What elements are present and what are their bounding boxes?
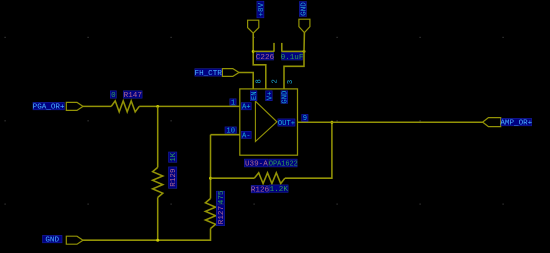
svg-text:1: 1: [231, 99, 235, 107]
svg-text:V+: V+: [266, 91, 274, 100]
svg-text:0.1uF: 0.1uF: [281, 54, 304, 62]
resistor R129 value 1K: [153, 152, 178, 198]
junction GND rail / R129: [156, 239, 159, 242]
junction output node: [330, 121, 333, 124]
svg-text:0: 0: [111, 92, 116, 100]
svg-text:10: 10: [226, 128, 235, 136]
pin 10 A-: [241, 131, 251, 138]
pin 8 EN: [250, 91, 257, 101]
svg-text:GND: GND: [45, 237, 59, 245]
svg-text:OUT+: OUT+: [278, 120, 295, 128]
svg-text:R127: R127: [218, 206, 226, 224]
wire PGA_OR+ to R147: [83, 105, 111, 107]
wire node A down to R129: [157, 106, 159, 167]
svg-text:R129: R129: [170, 168, 178, 187]
svg-text:GND: GND: [300, 2, 308, 16]
junction node A: [156, 105, 159, 108]
designator U39-A: [244, 159, 268, 167]
port PGA_OR+: [33, 102, 83, 111]
svg-text:C226: C226: [256, 54, 275, 62]
svg-text:1.2K: 1.2K: [270, 186, 289, 194]
wire R126 to output node: [285, 122, 332, 178]
junction GND / C226: [303, 50, 306, 53]
svg-text:9: 9: [303, 115, 307, 123]
svg-text:GND: GND: [282, 91, 290, 104]
port GND bottom-left: [43, 235, 84, 244]
svg-text:EN: EN: [251, 91, 259, 100]
wire +8V down to junction and V+ pin 2: [253, 33, 266, 89]
wire C226 right plate to GND junction: [282, 50, 304, 52]
wire junction to C226 left plate: [253, 50, 274, 52]
pin 1 A+: [241, 103, 251, 110]
wire op-amp pin 9 output to AMP_OR+: [298, 121, 483, 123]
port +8V: [248, 1, 266, 33]
port GND top: [299, 2, 310, 33]
svg-text:475: 475: [218, 190, 226, 204]
svg-text:3: 3: [287, 80, 295, 84]
svg-text:U39-A: U39-A: [245, 161, 268, 169]
pin 3 GND: [281, 91, 288, 104]
wire GND rail: [83, 229, 211, 241]
svg-text:PGA_OR+: PGA_OR+: [33, 104, 65, 112]
svg-text:OPA1622: OPA1622: [269, 160, 298, 168]
port FH_CTR: [195, 69, 239, 78]
wire R127 top to node B: [210, 135, 212, 199]
svg-text:FH_CTR: FH_CTR: [195, 70, 223, 78]
wire R129 to GND rail: [157, 198, 159, 241]
pin 2 V+: [266, 91, 273, 101]
wire GND top to op-amp pin 3 GND: [284, 33, 304, 90]
wire node B to op-amp pin 10: [211, 134, 240, 136]
junction node B (feedback): [209, 177, 212, 180]
wire node B to R126: [211, 177, 255, 179]
svg-text:A-: A-: [242, 132, 251, 140]
comment OPA1622: [270, 159, 298, 167]
pin 9 OUT+: [278, 119, 295, 126]
svg-text:AMP_OR+: AMP_OR+: [500, 120, 532, 128]
svg-text:+8V: +8V: [258, 2, 266, 16]
wire FH_CTR to op-amp pin 8 EN: [239, 73, 253, 90]
svg-text:1K: 1K: [170, 152, 178, 162]
resistor R126 value 1.2K: [251, 173, 288, 195]
capacitor C226 value 0.1uF: [256, 43, 304, 62]
op-amp U39-A OPA1622: [225, 79, 308, 168]
svg-text:2: 2: [271, 79, 279, 83]
junction +8V / C226: [252, 50, 255, 53]
svg-text:A+: A+: [242, 104, 251, 112]
resistor R127 value 475: [205, 190, 226, 228]
port AMP_OR+: [483, 118, 533, 128]
resistor R147 value 0: [110, 91, 142, 112]
wire R147 to node A and op-amp pin 1: [139, 105, 240, 107]
svg-text:R147: R147: [124, 92, 142, 100]
svg-text:8: 8: [256, 79, 264, 83]
svg-text:R126: R126: [251, 187, 270, 195]
